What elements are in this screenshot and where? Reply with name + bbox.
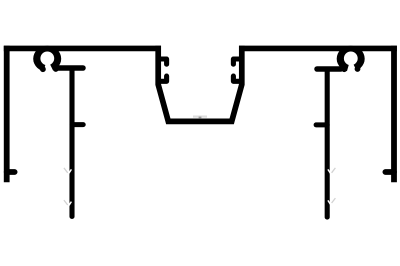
left wall foot [7,169,15,175]
right stem serration lower [332,198,336,203]
channel right hook upper [233,59,241,64]
top flange right [239,46,397,52]
left T-bar [58,65,83,71]
right T-bar [317,66,341,72]
left stem tick [72,122,83,127]
central channel walls and bottom [158,46,242,122]
left screw boss foot left [40,66,46,72]
channel left hook upper [158,59,166,64]
left stem serration upper [64,168,68,173]
left screw boss (omega ring) [33,46,61,72]
left screw boss foot right [53,66,59,72]
channel right hook lower [233,76,241,81]
right screw boss (omega ring) [337,46,365,72]
channel bottom center mark [193,115,207,117]
right screw boss slot opening [346,59,357,74]
right stem tick [316,122,327,127]
right stem [325,69,330,217]
left stem [69,68,74,217]
right stem serration upper [332,168,336,173]
top flange left [4,46,161,52]
right screw boss foot right [355,66,361,72]
left stem serration lower [64,200,68,205]
right outer wall [391,46,397,183]
right wall foot [385,169,394,175]
left outer wall [4,46,10,183]
right screw boss foot left [341,66,347,72]
left screw boss slot opening [43,59,54,74]
channel left hook lower [158,76,166,81]
